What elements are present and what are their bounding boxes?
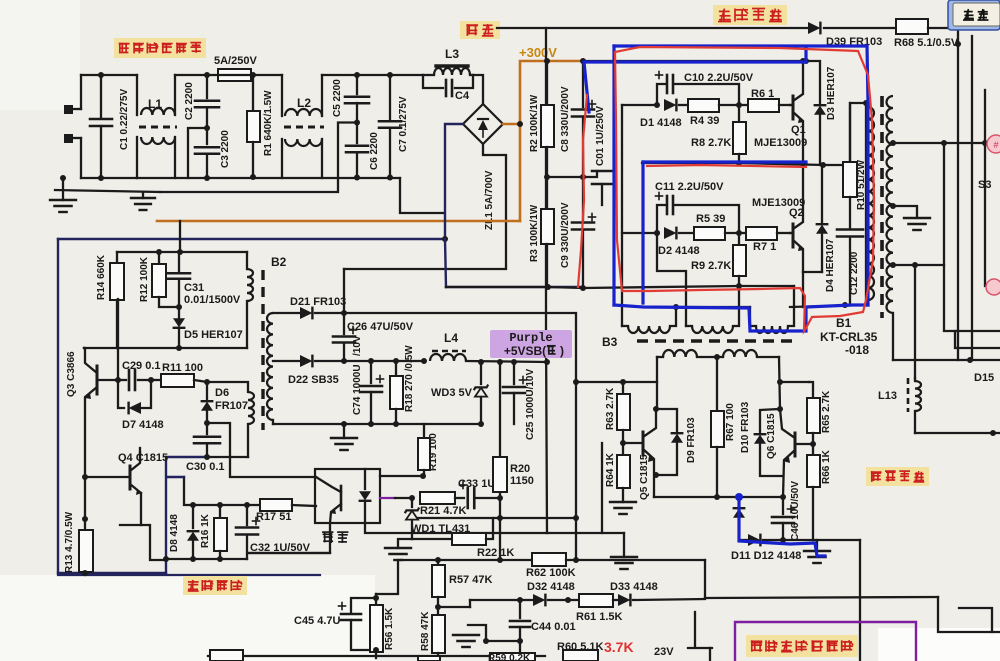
svg-text:Q5 C1815: Q5 C1815 — [639, 454, 650, 500]
wire D6 bypass — [207, 423, 230, 457]
label R10 51/2W — [856, 159, 867, 210]
capacitor C3 — [195, 128, 219, 181]
wire Q6 base — [795, 441, 816, 447]
label +300V — [519, 45, 557, 60]
svg-text:): ) — [560, 344, 564, 358]
label D10 FR103 — [740, 401, 751, 453]
diode D6 FR107 — [201, 382, 214, 426]
svg-text:C01 1U/250V: C01 1U/250V — [595, 106, 606, 166]
svg-text:R17 51: R17 51 — [256, 511, 291, 523]
wire fuse-R1 — [250, 72, 282, 78]
svg-text:B3: B3 — [602, 335, 618, 349]
svg-text:Q6 C1815: Q6 C1815 — [766, 413, 777, 459]
svg-text:Q1: Q1 — [791, 124, 806, 136]
label R19 100 — [428, 433, 439, 471]
svg-text:C25 1000U/10V: C25 1000U/10V — [525, 369, 536, 440]
wire row 597 — [705, 597, 938, 598]
svg-text:R14 660K: R14 660K — [96, 254, 107, 300]
svg-text:MJE13009: MJE13009 — [754, 137, 807, 149]
transistor Q5 C1815 — [643, 406, 659, 497]
svg-text:D10 FR103: D10 FR103 — [740, 401, 751, 453]
wire stub right — [959, 608, 992, 632]
svg-text:C31: C31 — [184, 282, 204, 294]
start button 开始 — [948, 0, 1000, 30]
svg-text:C46 10U/50V: C46 10U/50V — [790, 481, 801, 541]
blue annotation inner left — [641, 162, 644, 303]
label R4 39 — [690, 115, 719, 127]
diode D1 — [664, 99, 676, 112]
wire Q3 collector return — [83, 347, 85, 349]
svg-text:R1 640K/1.5W: R1 640K/1.5W — [263, 90, 274, 156]
wire Q2 emitter — [803, 272, 822, 307]
wire top rail L2-L3 — [322, 72, 423, 78]
resistor R2 — [541, 61, 554, 177]
capacitor C4 series branch — [423, 75, 473, 96]
wire navy horizontal — [58, 236, 448, 242]
label D3 HER107 — [826, 66, 837, 120]
wire R14 rail — [117, 221, 247, 255]
wire main HT column — [545, 28, 547, 331]
wire row 560 — [401, 557, 532, 563]
svg-text:R12 100K: R12 100K — [139, 256, 150, 302]
resistor R22 — [452, 533, 486, 545]
transformer B1 secondary winding — [887, 96, 894, 313]
diode D11 — [733, 497, 746, 540]
label R5 39 — [696, 213, 725, 225]
capacitor C5 — [345, 75, 369, 123]
label C31 — [184, 282, 204, 294]
pink watermark circle mid — [986, 279, 1000, 295]
svg-text:D2 4148: D2 4148 — [658, 245, 700, 257]
pink watermark circle top — [987, 135, 1000, 153]
svg-text:D9 FR103: D9 FR103 — [686, 417, 697, 463]
wire navy left vertical — [57, 239, 59, 573]
label D5 HER107 — [184, 329, 243, 341]
resistor R66 — [807, 444, 820, 540]
label R8 2.7K — [691, 137, 731, 149]
capacitor C7 — [379, 75, 401, 181]
wire R10 top hook — [850, 100, 869, 165]
svg-text:-018: -018 — [845, 343, 869, 357]
capacitor C46 — [772, 497, 795, 543]
blue annotation right edge — [867, 46, 868, 305]
label L1 — [148, 97, 162, 111]
label L13 — [878, 390, 897, 402]
wire R57 tap — [438, 606, 470, 608]
label R2 100K/1W — [529, 94, 540, 152]
wire B1 sec bottom — [892, 313, 894, 360]
wire navy over C9 rail — [446, 286, 583, 288]
wire B2 bottom rail — [273, 421, 484, 427]
label D8 4148 — [169, 514, 180, 552]
resistor R17 — [260, 499, 316, 511]
svg-text:C11 2.2U/50V: C11 2.2U/50V — [655, 181, 724, 193]
label R16 1K — [200, 513, 211, 548]
wire B1 sec top tap — [890, 140, 1000, 146]
zener WD1 TL431 — [405, 498, 419, 539]
resistor R60 body — [563, 650, 598, 661]
svg-text:R68 5.1/0.5V: R68 5.1/0.5V — [894, 37, 959, 49]
svg-text:R63 2.7K: R63 2.7K — [605, 387, 616, 430]
label MJE13009 lower — [752, 197, 805, 209]
resistor R10 — [843, 103, 857, 228]
wire +300V orange from bridge — [503, 123, 520, 126]
wire drive return rail — [642, 304, 750, 310]
label 0.01/1500V — [184, 294, 241, 306]
zener WD3 5V — [474, 362, 488, 424]
label Q3 C3866 — [66, 351, 77, 397]
label R67 100 — [725, 403, 736, 441]
wire D39 to R68 — [824, 27, 896, 29]
label R66 1K — [821, 449, 832, 484]
label C11 2.2U/50V — [655, 181, 724, 193]
node +300V junction — [544, 58, 550, 64]
wire 705 drop — [704, 560, 706, 598]
svg-text:R8 2.7K: R8 2.7K — [691, 137, 731, 149]
wire bottom left bits — [688, 612, 712, 661]
wire B3 W1b leg — [656, 357, 658, 409]
label C01 1U/250V — [595, 106, 606, 166]
label C29 0.1 — [122, 360, 161, 372]
wire aux bottom rail — [58, 570, 320, 576]
label L4 — [444, 331, 458, 345]
ground R64 — [610, 502, 636, 514]
resistor R64 — [617, 443, 630, 502]
wire pushpull bias rail — [576, 379, 657, 385]
svg-text:5A/250V: 5A/250V — [214, 55, 257, 67]
svg-text:/10V: /10V — [352, 335, 363, 356]
svg-text:D11 D12 4148: D11 D12 4148 — [731, 550, 801, 562]
optocoupler phototransistor — [316, 477, 341, 523]
wire navy bridge left — [445, 124, 463, 239]
label R64 1K — [605, 452, 616, 487]
wire filter bottom to bridge — [400, 178, 444, 213]
svg-text:Q3 C3866: Q3 C3866 — [66, 351, 77, 397]
label R6 1 — [751, 88, 774, 100]
wire drive bus upper — [622, 104, 657, 106]
wire Q6 collector leg — [777, 357, 783, 412]
ground B2 secondary — [331, 424, 357, 450]
wire right col 985 — [985, 90, 1000, 286]
label C1 0.22/275V — [119, 89, 130, 150]
svg-text:L3: L3 — [445, 47, 459, 61]
wire D39 rail — [497, 27, 808, 29]
wire bottom rail A — [446, 283, 794, 291]
label R61 1.5K — [576, 611, 623, 623]
svg-text:D7 4148: D7 4148 — [122, 419, 164, 431]
label S3 — [978, 179, 991, 191]
resistor R19 — [418, 424, 430, 477]
svg-text:#: # — [993, 140, 998, 150]
svg-text:C2 2200: C2 2200 — [184, 82, 195, 120]
diode D33 — [613, 594, 705, 607]
wire to bridge top — [473, 75, 483, 104]
red annotation outer loop — [615, 47, 874, 331]
svg-text:C26 47U/50V: C26 47U/50V — [347, 321, 414, 333]
wire navy bottom — [58, 572, 166, 574]
label WD1 TL431 — [411, 523, 470, 535]
wire opto to R21 purple — [380, 497, 412, 499]
svg-text:C3 2200: C3 2200 — [220, 130, 231, 168]
capacitor C2 — [195, 75, 219, 128]
svg-text:D6: D6 — [215, 387, 229, 399]
svg-text:L13: L13 — [878, 390, 897, 402]
svg-text:C10 2.2U/50V: C10 2.2U/50V — [684, 72, 754, 84]
label Q1 — [791, 124, 806, 136]
wire drive bus lower — [622, 232, 657, 234]
svg-text:R61 1.5K: R61 1.5K — [576, 611, 623, 623]
svg-text:R5 39: R5 39 — [696, 213, 725, 225]
AC plug upper prong — [64, 105, 81, 114]
label D6 — [215, 387, 229, 399]
capacitor C29 — [115, 370, 154, 390]
diode D7 4148 — [118, 380, 151, 414]
svg-text:1150: 1150 — [510, 475, 534, 487]
ground B1 secondary — [904, 218, 930, 230]
label R13 4.7/0.5W — [64, 511, 75, 573]
label C10 2.2U/50V — [684, 72, 754, 84]
wire bridge return to C26 — [343, 269, 345, 313]
resistor R57 — [432, 560, 445, 615]
transformer B2 primary lower — [207, 382, 254, 457]
transistor Q3 C3866 — [85, 348, 97, 519]
wire aux12V feed — [344, 313, 579, 560]
transformer B3 winding W1 — [622, 307, 676, 333]
diode D4 HER107 — [816, 165, 829, 272]
wire aux top return — [84, 347, 247, 349]
svg-text:B2: B2 — [271, 255, 287, 269]
label MJE13009 upper — [754, 137, 807, 149]
wire B1 primary feed — [865, 103, 867, 305]
svg-text:FR107: FR107 — [215, 400, 248, 412]
label R57 47K — [449, 574, 492, 586]
label 3.7K red — [604, 639, 634, 655]
label L2 — [297, 96, 311, 110]
transformer B2 secondary — [267, 313, 273, 424]
wire right col 944 — [944, 143, 1000, 331]
svg-text:C8 330U/200V: C8 330U/200V — [560, 86, 571, 152]
svg-text:C30 0.1: C30 0.1 — [186, 461, 225, 473]
wire drive bottom rail — [790, 305, 866, 307]
wire mid rail to R10 — [823, 164, 850, 166]
svg-text:R11 100: R11 100 — [162, 362, 203, 374]
label rectifier 整流 — [460, 21, 500, 39]
svg-text:D4 HER107: D4 HER107 — [825, 238, 836, 292]
label C6 2200 — [369, 132, 380, 170]
svg-text:C7 0.1/275V: C7 0.1/275V — [398, 96, 409, 152]
label KT-CRL35 — [820, 330, 878, 344]
label C12 2200 — [849, 251, 860, 295]
resistor R65 — [807, 382, 820, 444]
wire emitter bus — [654, 494, 780, 500]
capacitor C26 — [333, 313, 357, 361]
wire R68 node down — [955, 28, 961, 360]
capacitor C30 — [194, 423, 220, 460]
transformer B3 lower winding B — [717, 350, 779, 357]
transistor Q2 MJE13009 — [790, 165, 804, 272]
resistor bottom stub 2 — [418, 653, 535, 661]
svg-text:C1 0.22/275V: C1 0.22/275V — [119, 89, 130, 150]
svg-text:R66 1K: R66 1K — [821, 449, 832, 484]
wire Q3 base — [97, 299, 118, 380]
svg-text:23V: 23V — [654, 646, 674, 658]
svg-text:C74 1000U: C74 1000U — [352, 364, 363, 415]
label R3 100K/1W — [529, 204, 540, 262]
label 1150 — [510, 475, 534, 487]
svg-text:D15: D15 — [974, 372, 994, 384]
transformer B3 winding W3 — [750, 286, 794, 333]
svg-text:D32 4148: D32 4148 — [527, 581, 575, 593]
blue annotation mid line — [643, 160, 806, 163]
diode D22 SB35 — [273, 355, 347, 368]
transformer B2 primary upper — [247, 252, 253, 348]
svg-text:R9 2.7K: R9 2.7K — [691, 260, 731, 272]
resistor R58 — [432, 604, 445, 657]
wire 938 corner — [938, 597, 1000, 632]
label 23V — [654, 646, 674, 658]
wire x860 down — [859, 540, 861, 661]
svg-text:C45 4.7U: C45 4.7U — [294, 615, 341, 627]
svg-text:D1 4148: D1 4148 — [640, 117, 682, 129]
ground WD1 — [385, 548, 411, 560]
label D9 FR103 — [686, 417, 697, 463]
svg-text:R2 100K/1W: R2 100K/1W — [529, 94, 540, 152]
label -018 — [845, 343, 869, 357]
AC plug lower prong — [64, 134, 81, 143]
svg-text:R22 1K: R22 1K — [477, 547, 514, 559]
label R1 640K/1.5W — [263, 90, 274, 156]
svg-text:R58 47K: R58 47K — [420, 611, 431, 651]
wire bridge bottom to return — [344, 144, 506, 269]
label D2 4148 — [658, 245, 700, 257]
wire B1 sec gnd tap — [890, 203, 917, 218]
label D4 HER107 — [825, 238, 836, 292]
blue annotation bottom — [614, 305, 868, 331]
wire HT column lower — [546, 331, 547, 533]
wire right col 972 — [971, 36, 973, 360]
svg-text:R64 1K: R64 1K — [605, 452, 616, 487]
resistor R13 — [79, 516, 93, 575]
resistor R12 — [152, 252, 179, 307]
label D32 4148 — [527, 581, 575, 593]
wire mid to C01 — [580, 171, 597, 180]
label R14 660K — [96, 254, 107, 300]
resistor R56 — [370, 594, 383, 658]
label D15 — [974, 372, 994, 384]
wire +5VSB rail — [466, 359, 550, 365]
wire R68 to button — [928, 27, 950, 29]
wire R65 bias link — [780, 381, 809, 383]
svg-text:C44 0.01: C44 0.01 — [531, 621, 576, 633]
wire plug to bottom rail — [80, 138, 82, 178]
svg-text:C5 2200: C5 2200 — [332, 79, 343, 117]
wire D2-R5 — [679, 232, 694, 234]
bridge rectifier ZL1 — [463, 104, 503, 144]
wire 398 riser — [376, 560, 398, 594]
label R68 5.1/0.5V — [894, 37, 959, 49]
red annotation C8 stroke — [578, 95, 587, 287]
svg-text:B1: B1 — [836, 316, 852, 330]
label C2 2200 — [184, 82, 195, 120]
label Q4 C1815 — [118, 452, 168, 464]
svg-text:D21 FR103: D21 FR103 — [290, 296, 346, 308]
label R65 2.7K — [821, 390, 832, 433]
svg-text:D3 HER107: D3 HER107 — [826, 66, 837, 120]
svg-text:D8 4148: D8 4148 — [169, 514, 180, 552]
wire opto LED top — [380, 473, 426, 479]
resistor R14 — [110, 252, 124, 348]
wire WD1 row — [398, 539, 452, 548]
wire bottom edge row — [208, 655, 545, 657]
label R11 100 — [162, 362, 203, 374]
diode D32 — [533, 594, 545, 607]
label switch-drive 开关驱动 — [713, 5, 787, 25]
svg-text:0.01/1500V: 0.01/1500V — [184, 294, 241, 306]
svg-text:R20: R20 — [510, 463, 530, 475]
wire C46 row out — [783, 539, 860, 541]
wire Q4 collector up — [139, 448, 141, 452]
wire mid feedback riser — [547, 443, 624, 533]
label R21 4.7K — [420, 505, 467, 517]
wire bottom rail — [137, 177, 400, 179]
wire C5/C6 junction — [160, 120, 360, 193]
svg-text:WD3 5V: WD3 5V — [431, 387, 473, 399]
optocoupler LED — [359, 469, 372, 523]
svg-text:+5VSB(: +5VSB( — [504, 344, 546, 358]
svg-text:+300V: +300V — [519, 45, 557, 60]
wire Q5 base — [623, 442, 643, 444]
wire right box stub — [955, 331, 1000, 348]
transformer B3 lower winding A — [657, 350, 720, 360]
label C8 330U/200V — [560, 86, 571, 152]
inductor L1 common-mode choke — [137, 75, 177, 178]
ground control — [453, 625, 523, 647]
svg-text:C6 2200: C6 2200 — [369, 132, 380, 170]
blue annotation pushpull — [735, 493, 825, 556]
resistor R61 — [579, 594, 613, 607]
fuse 5A/250V — [218, 69, 251, 81]
optocoupler box 光耦 — [315, 469, 380, 523]
resistor R11 — [151, 374, 210, 387]
label R12 100K — [139, 256, 150, 302]
label C25 1000U/10V — [525, 369, 536, 440]
wire orange startup rail — [157, 220, 520, 223]
svg-text:Q4 C1815: Q4 C1815 — [118, 452, 168, 464]
label C45 4.7U — [294, 615, 341, 627]
svg-text:R67 100: R67 100 — [725, 403, 736, 441]
wire +300V orange riser — [517, 61, 583, 221]
capacitor C10 — [654, 72, 739, 109]
label C33 1U — [458, 478, 495, 490]
diode D2 — [664, 227, 676, 240]
wire bottom rail left — [81, 177, 137, 179]
label R56 1.5K — [384, 607, 395, 650]
wire top rail to D3 — [803, 58, 820, 103]
ground pushpull — [804, 540, 830, 563]
wire C2/C3 junction — [188, 125, 210, 178]
wire R20 bottom node — [418, 492, 579, 560]
transistor Q6 C1815 — [780, 409, 795, 500]
red annotation inner line — [647, 165, 806, 167]
wire aux 5V rail — [344, 358, 427, 364]
label L3 — [445, 47, 459, 61]
label 光耦 — [322, 532, 348, 543]
label C44 0.01 — [531, 621, 576, 633]
resistor bottom stub 1 — [210, 650, 243, 661]
label R58 47K — [420, 611, 431, 651]
svg-text:R13 4.7/0.5W: R13 4.7/0.5W — [64, 511, 75, 573]
wire C30 bottom link — [207, 456, 248, 458]
